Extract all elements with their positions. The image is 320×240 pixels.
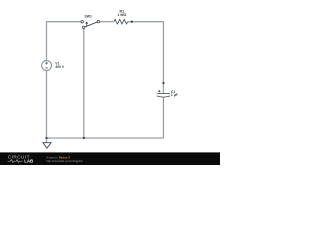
wire right vertical upper (162, 21, 164, 93)
junction dot bottom-middle (83, 137, 85, 139)
wire resistor to top-right corner (128, 21, 164, 23)
svg-text:1 µF: 1 µF (171, 93, 178, 97)
voltage source V1 (42, 61, 52, 71)
switch lever (85, 22, 97, 27)
switch SW1 (81, 20, 100, 28)
resistor R1 (114, 19, 128, 24)
wire left vertical upper (46, 21, 48, 60)
node dot after R1 (131, 21, 133, 23)
wire left vertical lower (46, 70, 48, 142)
node dot above C1 (162, 82, 164, 84)
wire bottom rail (47, 137, 164, 139)
wire switch to resistor (100, 21, 114, 23)
junction dot bottom-left (45, 137, 47, 139)
switch actuation arrow (86, 22, 88, 26)
svg-text:http://circuitlab.com/c/bqg2nb: http://circuitlab.com/c/bqg2nb (46, 159, 83, 163)
wire top-left horizontal (47, 21, 82, 23)
footer bar (0, 152, 220, 165)
wire middle vertical from switch (83, 29, 85, 138)
svg-text:1 MΩ: 1 MΩ (117, 13, 126, 17)
capacitor C1 (157, 90, 171, 97)
ground (43, 143, 51, 148)
wire right vertical lower (162, 97, 164, 138)
CircuitLab logo squiggle (8, 160, 23, 163)
svg-text:SW1: SW1 (85, 15, 92, 19)
svg-text:LAB: LAB (24, 159, 33, 164)
svg-text:300 V: 300 V (55, 65, 65, 69)
